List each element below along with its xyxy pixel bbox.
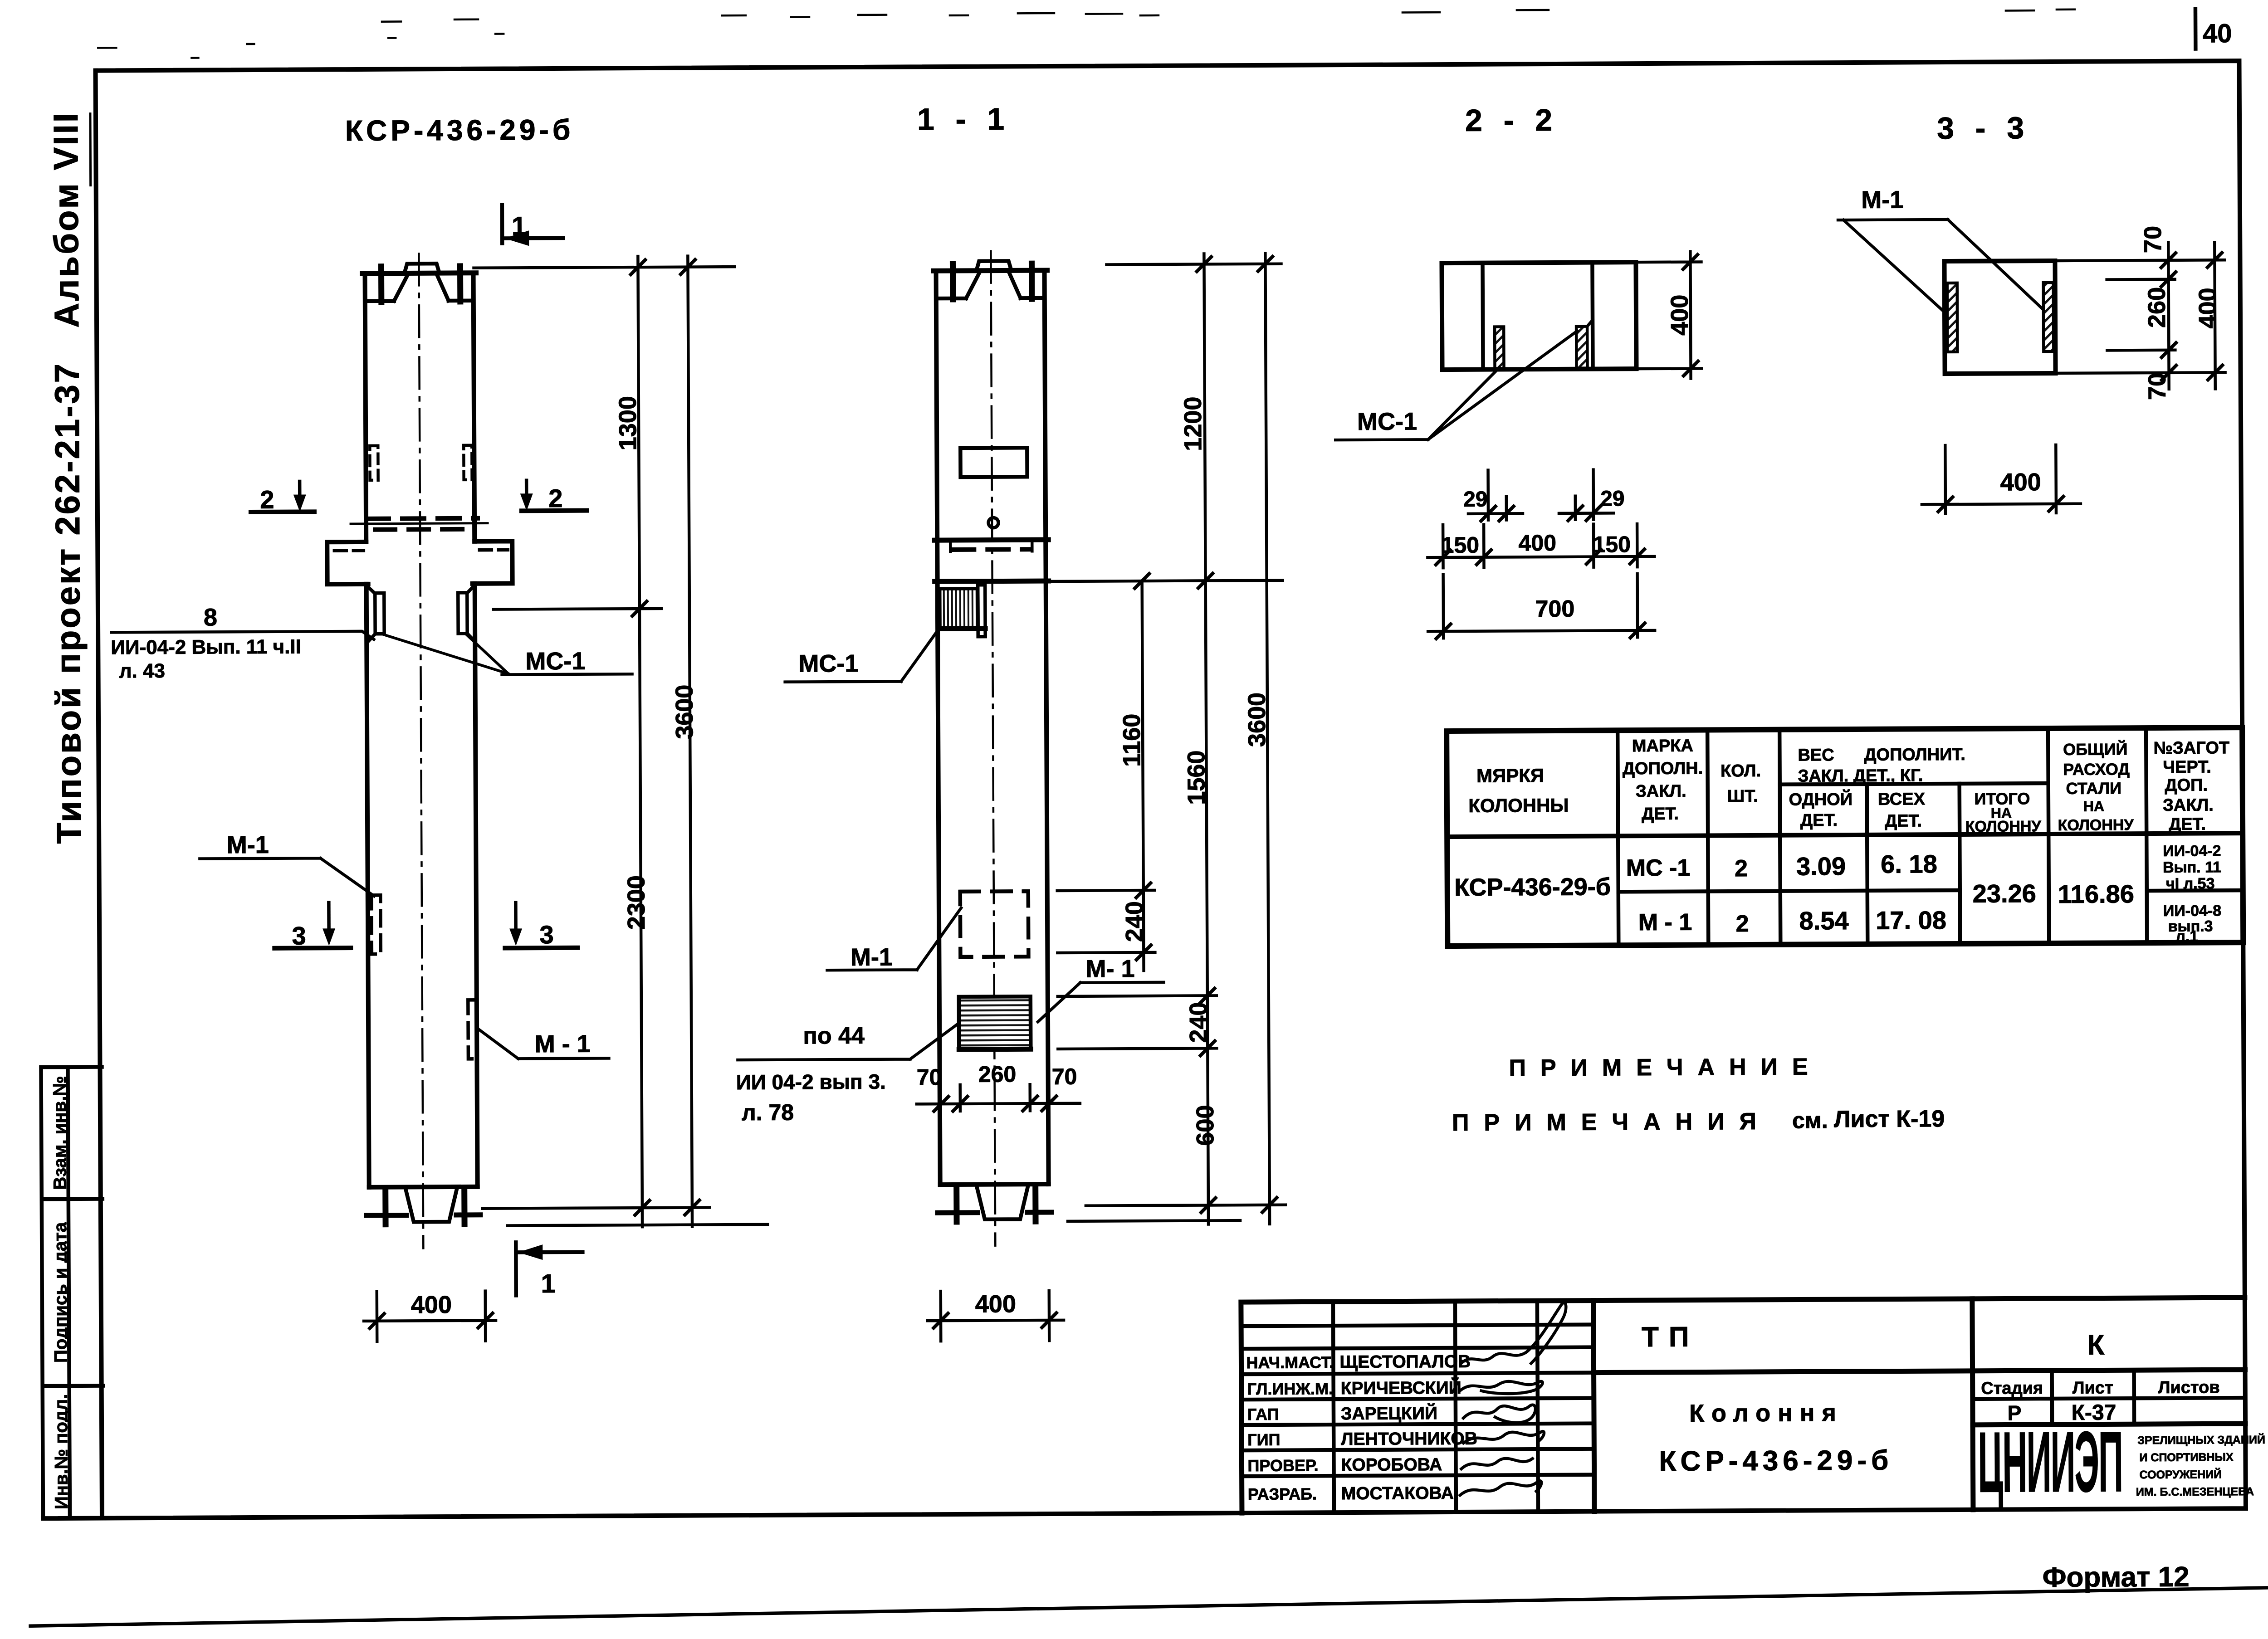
svg-text:РАЗРАБ.: РАЗРАБ.	[1248, 1484, 1317, 1503]
svg-text:ВЕС: ВЕС	[1798, 746, 1834, 765]
svg-text:см.: см.	[1792, 1107, 1828, 1133]
svg-text:ЦНИИЭП: ЦНИИЭП	[1978, 1413, 2123, 1510]
svg-text:3600: 3600	[671, 684, 699, 739]
svg-text:40: 40	[2203, 19, 2232, 48]
svg-text:МАРКА: МАРКА	[1632, 737, 1693, 756]
svg-text:МС-1: МС-1	[1357, 408, 1417, 435]
svg-text:6. 18: 6. 18	[1881, 849, 1937, 878]
svg-text:400: 400	[411, 1291, 452, 1318]
svg-text:150: 150	[1441, 532, 1479, 558]
svg-text:Инв.№ подл.: Инв.№ подл.	[51, 1394, 72, 1509]
svg-text:НА: НА	[2083, 798, 2104, 814]
svg-text:МС-1: МС-1	[525, 648, 585, 675]
svg-text:ГАП: ГАП	[1247, 1405, 1279, 1424]
svg-text:400: 400	[975, 1290, 1016, 1317]
svg-text:240: 240	[1121, 901, 1148, 942]
svg-text:400: 400	[2000, 468, 2041, 496]
svg-text:240: 240	[1185, 1002, 1212, 1043]
svg-text:1300: 1300	[614, 396, 642, 450]
svg-text:17. 08: 17. 08	[1876, 906, 1946, 935]
svg-text:Взам. инв.№: Взам. инв.№	[50, 1076, 70, 1190]
svg-text:ШТ.: ШТ.	[1727, 787, 1758, 806]
svg-text:1560: 1560	[1183, 750, 1210, 805]
svg-text:1200: 1200	[1179, 396, 1207, 451]
svg-text:ДЕТ.: ДЕТ.	[1642, 805, 1679, 824]
svg-text:400: 400	[1518, 530, 1556, 556]
svg-text:600: 600	[1192, 1105, 1219, 1146]
svg-text:400: 400	[1666, 295, 1693, 336]
svg-text:1 - 1: 1 - 1	[917, 102, 1011, 137]
svg-text:ПРИМЕЧАНИЕ: ПРИМЕЧАНИЕ	[1509, 1054, 1822, 1081]
svg-text:ЛЕНТОЧНИКОВ: ЛЕНТОЧНИКОВ	[1341, 1429, 1477, 1449]
svg-text:ИИ-04-2: ИИ-04-2	[2163, 842, 2221, 860]
svg-text:2300: 2300	[623, 875, 650, 930]
svg-text:ПРОВЕР.: ПРОВЕР.	[1247, 1456, 1318, 1475]
svg-text:70: 70	[917, 1064, 942, 1090]
svg-text:3600: 3600	[1243, 693, 1271, 747]
svg-text:1: 1	[541, 1269, 556, 1298]
svg-text:РАСХОД: РАСХОД	[2063, 760, 2130, 779]
svg-text:150: 150	[1593, 532, 1631, 557]
svg-text:ЗАКЛ.: ЗАКЛ.	[1636, 782, 1686, 801]
svg-text:ДОПОЛН.: ДОПОЛН.	[1623, 759, 1703, 779]
svg-text:ВСЕХ: ВСЕХ	[1878, 790, 1926, 809]
svg-text:Формат 12: Формат 12	[2043, 1561, 2190, 1593]
svg-text:2: 2	[548, 484, 562, 512]
svg-text:700: 700	[1535, 596, 1574, 622]
svg-text:ГИП: ГИП	[1247, 1430, 1280, 1449]
svg-text:МЯРКЯ: МЯРКЯ	[1476, 765, 1544, 786]
svg-text:3 - 3: 3 - 3	[1937, 111, 2030, 146]
svg-text:70: 70	[1052, 1064, 1077, 1089]
svg-text:Вып. 11: Вып. 11	[2163, 859, 2221, 876]
svg-text:ЧЕРТ.: ЧЕРТ.	[2163, 757, 2211, 776]
svg-text:ДЕТ.: ДЕТ.	[2169, 815, 2206, 834]
svg-text:К: К	[2087, 1329, 2104, 1361]
svg-text:КСР-436-29-б: КСР-436-29-б	[1454, 873, 1611, 901]
svg-text:СТАЛИ: СТАЛИ	[2066, 779, 2121, 798]
svg-text:2: 2	[260, 485, 274, 514]
svg-text:КОРОБОВА: КОРОБОВА	[1341, 1455, 1442, 1475]
svg-text:Листов: Листов	[2158, 1378, 2220, 1397]
svg-text:М-1: М-1	[850, 944, 893, 971]
svg-text:1: 1	[512, 211, 527, 241]
svg-text:3.09: 3.09	[1796, 852, 1846, 880]
svg-text:МС -1: МС -1	[1626, 855, 1691, 882]
svg-text:КСР-436-29-б: КСР-436-29-б	[345, 113, 574, 147]
svg-text:чI л.53: чI л.53	[2166, 875, 2215, 892]
svg-text:70: 70	[2139, 226, 2166, 253]
svg-text:КОЛОННЫ: КОЛОННЫ	[1468, 795, 1569, 816]
svg-text:1160: 1160	[1118, 714, 1146, 767]
svg-text:ДОПОЛНИТ.: ДОПОЛНИТ.	[1864, 745, 1965, 765]
svg-text:М- 1: М- 1	[1085, 955, 1134, 982]
svg-text:8.54: 8.54	[1799, 906, 1848, 935]
svg-text:29: 29	[1463, 488, 1488, 512]
svg-text:8: 8	[204, 604, 217, 631]
svg-text:2 - 2: 2 - 2	[1465, 103, 1559, 138]
svg-text:М-1: М-1	[227, 831, 269, 859]
svg-text:70: 70	[2144, 373, 2171, 400]
svg-text:ЗАКЛ. ДЕТ., КГ.: ЗАКЛ. ДЕТ., КГ.	[1798, 766, 1923, 785]
svg-text:Лист: Лист	[2072, 1378, 2113, 1397]
svg-text:л. 78: л. 78	[742, 1100, 794, 1126]
svg-text:МОСТАКОВА: МОСТАКОВА	[1341, 1483, 1454, 1503]
svg-text:КОЛОННУ: КОЛОННУ	[2058, 816, 2134, 834]
svg-text:ДЕТ.: ДЕТ.	[1885, 811, 1922, 830]
svg-text:Стадия: Стадия	[1981, 1379, 2043, 1398]
svg-text:М-1: М-1	[1861, 186, 1903, 213]
svg-text:М - 1: М - 1	[1638, 909, 1692, 936]
svg-text:ДЕТ.: ДЕТ.	[1800, 811, 1838, 830]
svg-text:116.86: 116.86	[2058, 879, 2134, 908]
svg-text:Колоння: Колоння	[1689, 1399, 1843, 1427]
svg-text:ИИ 04-2 вып 3.: ИИ 04-2 вып 3.	[736, 1070, 886, 1094]
svg-text:НАЧ.МАСТ.: НАЧ.МАСТ.	[1246, 1353, 1334, 1372]
svg-text:Подпись и дата: Подпись и дата	[50, 1222, 71, 1363]
svg-text:ИИ-04-8: ИИ-04-8	[2163, 902, 2221, 920]
svg-text:ОБЩИЙ: ОБЩИЙ	[2063, 739, 2128, 759]
svg-text:3: 3	[539, 920, 553, 949]
svg-text:КОЛОННУ: КОЛОННУ	[1965, 818, 2042, 835]
svg-text:ЗАКЛ.: ЗАКЛ.	[2163, 795, 2214, 815]
svg-text:ЗАРЕЦКИЙ: ЗАРЕЦКИЙ	[1341, 1403, 1437, 1424]
svg-text:ИИ-04-2 Вып. 11 ч.II: ИИ-04-2 Вып. 11 ч.II	[111, 636, 301, 659]
svg-text:ТП: ТП	[1642, 1322, 1699, 1353]
svg-text:Типовой проект 262-21-37 Аль: Типовой проект 262-21-37 Альбом VIII	[47, 111, 88, 844]
svg-text:29: 29	[1600, 487, 1625, 511]
svg-text:3: 3	[292, 921, 306, 950]
svg-text:ИМ. Б.С.МЕЗЕНЦЕВА: ИМ. Б.С.МЕЗЕНЦЕВА	[2136, 1485, 2254, 1498]
svg-text:Лист К-19: Лист К-19	[1834, 1106, 1945, 1132]
svg-text:2: 2	[1735, 855, 1748, 882]
svg-text:ЩЕСТОПАЛОВ: ЩЕСТОПАЛОВ	[1339, 1352, 1471, 1372]
svg-text:№ЗАГОТ: №ЗАГОТ	[2154, 738, 2230, 758]
svg-text:л. 43: л. 43	[119, 660, 165, 682]
svg-text:по 44: по 44	[803, 1023, 865, 1049]
svg-text:2: 2	[1735, 911, 1749, 937]
svg-text:И СПОРТИВНЫХ: И СПОРТИВНЫХ	[2139, 1451, 2234, 1464]
svg-text:ПРИМЕЧАНИЯ: ПРИМЕЧАНИЯ	[1452, 1108, 1771, 1136]
svg-text:КРИЧЕВСКИЙ: КРИЧЕВСКИЙ	[1341, 1377, 1461, 1398]
svg-text:ЗРЕЛИЩНЫХ ЗДАНИЙ: ЗРЕЛИЩНЫХ ЗДАНИЙ	[2137, 1433, 2265, 1447]
svg-text:ДОП.: ДОП.	[2165, 776, 2208, 795]
svg-text:260: 260	[978, 1061, 1017, 1087]
svg-text:400: 400	[2194, 288, 2221, 328]
svg-text:ОДНОЙ: ОДНОЙ	[1789, 789, 1853, 810]
svg-text:ГЛ.ИНЖ.М.: ГЛ.ИНЖ.М.	[1247, 1379, 1333, 1398]
svg-text:л.1: л.1	[2175, 928, 2198, 945]
svg-text:М - 1: М - 1	[535, 1030, 591, 1058]
svg-text:МС-1: МС-1	[798, 650, 858, 678]
svg-text:КСР-436-29-б: КСР-436-29-б	[1659, 1445, 1893, 1477]
svg-text:КОЛ.: КОЛ.	[1721, 761, 1761, 780]
svg-text:СООРУЖЕНИЙ: СООРУЖЕНИЙ	[2140, 1467, 2222, 1481]
svg-text:23.26: 23.26	[1973, 879, 2036, 908]
svg-text:260: 260	[2143, 287, 2170, 328]
